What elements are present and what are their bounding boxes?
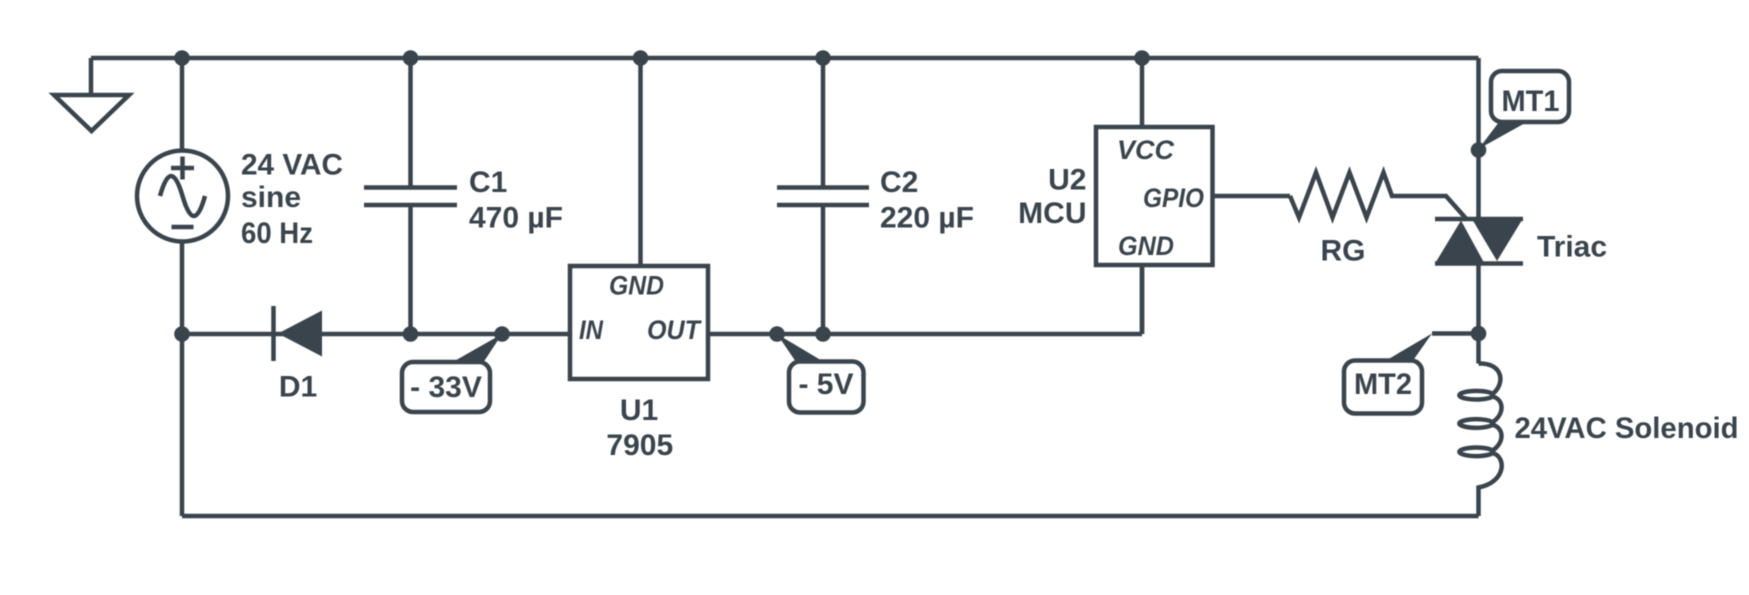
svg-text:OUT: OUT <box>647 315 702 345</box>
svg-text:MCU: MCU <box>1018 197 1086 230</box>
svg-text:220 µF: 220 µF <box>880 202 974 235</box>
svg-text:VCC: VCC <box>1117 135 1175 165</box>
svg-text:24 VAC: 24 VAC <box>241 149 343 182</box>
svg-text:GND: GND <box>609 271 664 301</box>
svg-text:24VAC Solenoid: 24VAC Solenoid <box>1515 412 1739 445</box>
svg-text:MT2: MT2 <box>1354 368 1412 401</box>
svg-text:- 33V: - 33V <box>410 371 482 404</box>
svg-text:60 Hz: 60 Hz <box>241 217 313 250</box>
svg-text:Triac: Triac <box>1537 231 1607 264</box>
svg-text:GND: GND <box>1118 231 1174 261</box>
svg-text:D1: D1 <box>279 371 317 404</box>
svg-text:MT1: MT1 <box>1502 85 1560 118</box>
svg-text:7905: 7905 <box>606 429 673 462</box>
svg-text:- 5V: - 5V <box>798 368 853 401</box>
svg-text:470 µF: 470 µF <box>469 202 563 235</box>
svg-text:U1: U1 <box>620 394 658 427</box>
svg-text:IN: IN <box>579 315 603 345</box>
svg-text:U2: U2 <box>1048 164 1086 197</box>
svg-text:C1: C1 <box>469 166 507 199</box>
svg-text:C2: C2 <box>880 166 918 199</box>
svg-text:RG: RG <box>1321 235 1366 268</box>
svg-text:sine: sine <box>241 181 301 214</box>
svg-text:GPIO: GPIO <box>1143 183 1204 213</box>
